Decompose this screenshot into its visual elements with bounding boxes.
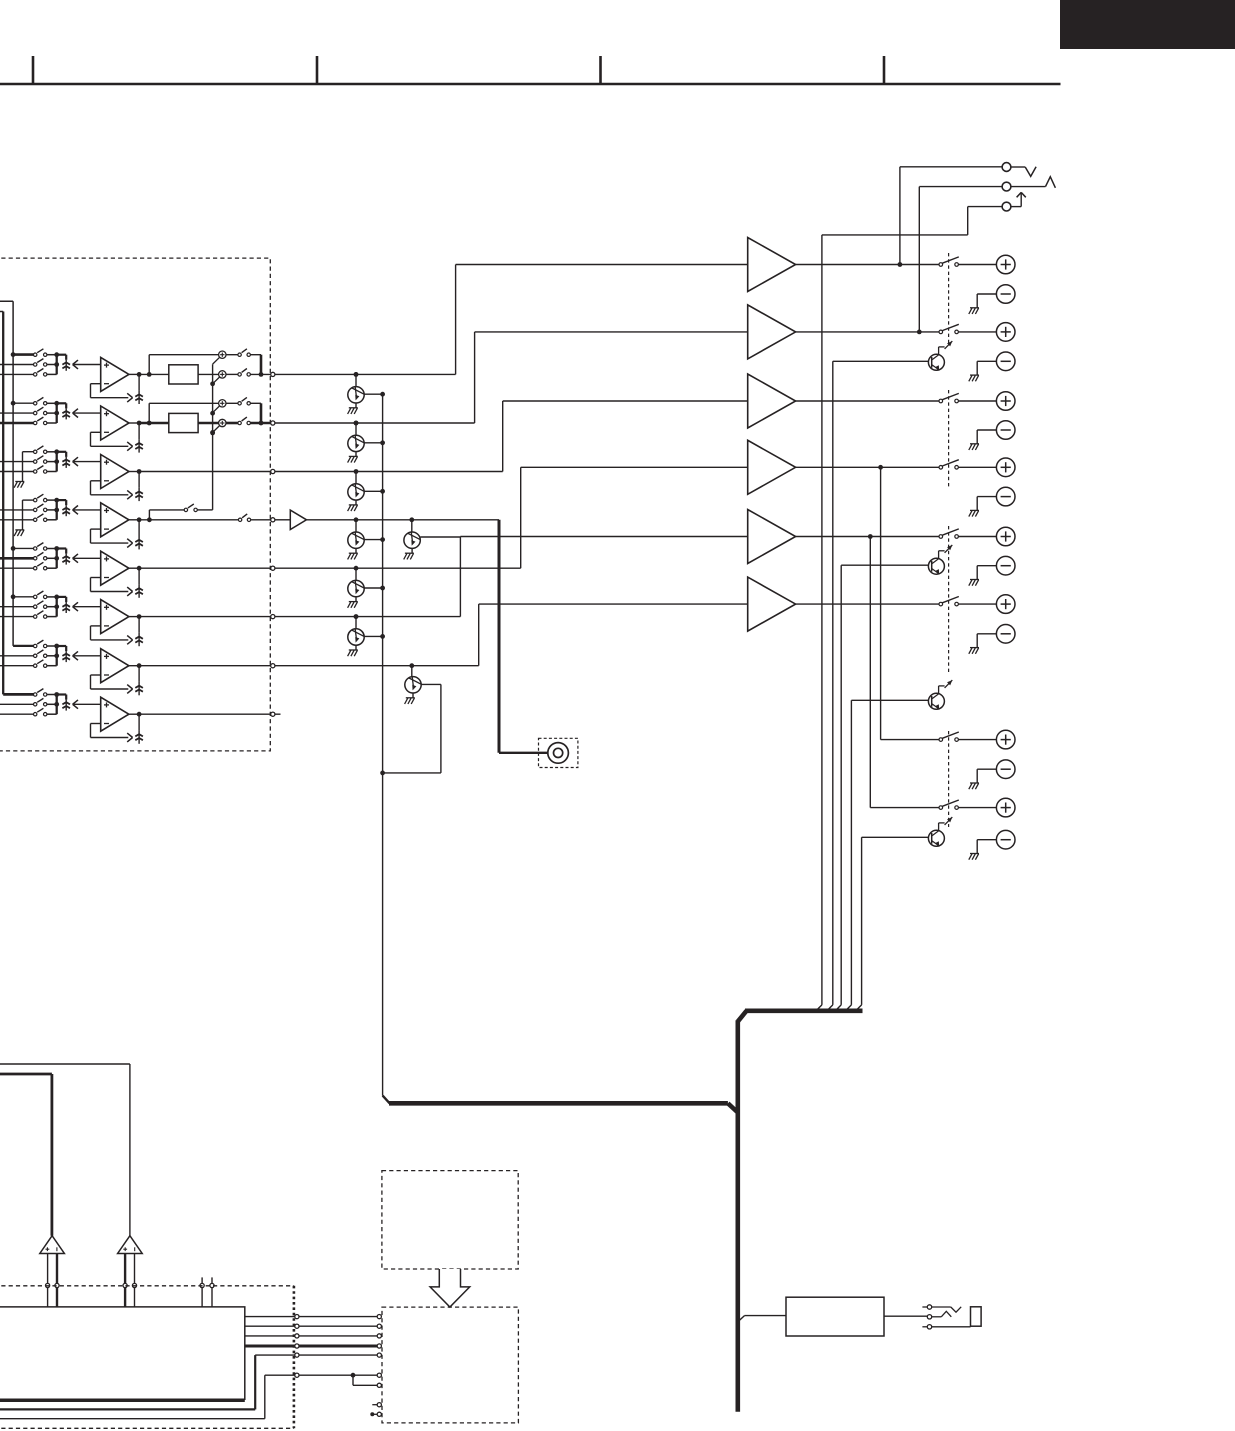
wire row 4 to buffer xyxy=(275,519,290,521)
wire row 8 stub xyxy=(139,713,280,715)
wire row 5 to power amp 4 xyxy=(275,467,748,570)
speaker terminal plus 7 xyxy=(996,730,1015,749)
mute transistor Q7 xyxy=(404,520,461,560)
branch wire row 4 to summing switch xyxy=(149,510,184,520)
volume pot VR1 xyxy=(57,355,101,371)
headphone jack contacts xyxy=(922,1305,931,1329)
corner fill block (top right) xyxy=(1060,0,1235,49)
terminal pin row 6 xyxy=(271,615,275,619)
sub assembly dashed box xyxy=(382,1307,518,1423)
summing node S1b xyxy=(210,371,226,387)
wire output node row 2 xyxy=(139,421,169,426)
summing node S2a xyxy=(213,400,226,413)
speaker terminal plus 3 xyxy=(996,392,1015,411)
power amp A4 xyxy=(748,440,796,494)
relay driver transistor Q11 xyxy=(833,341,953,371)
volume pot VR4 xyxy=(57,500,101,516)
mute transistor Q1 xyxy=(348,372,385,414)
feedback pot row 6 xyxy=(91,614,143,646)
speaker terminal minus 6 xyxy=(969,625,1015,654)
switch common node row 2 xyxy=(47,401,59,423)
op-amp U6 xyxy=(101,600,129,634)
wire lower feed 2 xyxy=(0,1375,295,1419)
display block dashed box xyxy=(382,1171,518,1269)
control wire xyxy=(299,1345,377,1348)
wire switch to summing bus xyxy=(197,509,212,511)
relay drive wire 4 xyxy=(856,837,862,1011)
relay contact K5 xyxy=(939,529,959,538)
sub block input pins xyxy=(377,1315,381,1417)
wire relay to terminal 7 xyxy=(958,739,996,741)
relay contact K1 xyxy=(939,257,959,266)
control wire split xyxy=(299,1373,377,1386)
op-amp output wire row 4 xyxy=(129,519,139,521)
input selector switches row 6 xyxy=(34,591,47,618)
IC output wires xyxy=(245,1317,295,1346)
sub block stub pins xyxy=(370,1405,377,1417)
junction row 1 mute xyxy=(354,372,359,377)
wire block to summing row 1 xyxy=(198,373,219,375)
control wire xyxy=(299,1325,377,1327)
relay contact K7 xyxy=(939,732,959,741)
controller IC block xyxy=(0,1307,245,1401)
volume pot VR2 xyxy=(57,403,101,419)
header tick 1 xyxy=(32,56,35,84)
left edge input wires xyxy=(0,365,34,715)
terminal pin row 2 xyxy=(271,421,275,425)
switch after S1a xyxy=(226,349,250,357)
control wire xyxy=(299,1335,377,1337)
op-amp output wire row 5 xyxy=(129,567,139,569)
speaker terminal plus 4 xyxy=(996,458,1015,477)
control stub pins xyxy=(200,1277,214,1307)
speaker terminal plus 8 xyxy=(996,798,1015,817)
speaker terminal minus 3 xyxy=(969,421,1015,450)
switch common node row 4 xyxy=(47,498,59,520)
switch common node row 1 xyxy=(47,352,59,374)
power amp A5 xyxy=(748,510,796,564)
switch common node row 8 xyxy=(47,692,59,714)
volume pot VR7 xyxy=(57,646,101,662)
relay contact K6 xyxy=(939,597,959,606)
wire relay to terminal 8 xyxy=(958,807,996,809)
switch common node row 3 xyxy=(47,449,59,471)
buffer amp row 4 xyxy=(290,510,306,529)
op-amp U7 xyxy=(101,649,129,683)
wire buffer to preout xyxy=(307,517,500,522)
op-amp output wire row 8 xyxy=(129,713,139,715)
summing select switch row 4 xyxy=(184,504,197,512)
op-amp output wire row 6 xyxy=(129,616,139,618)
speaker switch connector 3 xyxy=(1002,192,1026,211)
preout jack J1 xyxy=(539,738,578,767)
wire S2a to output xyxy=(250,403,261,423)
wire amp out 1 xyxy=(796,264,939,266)
speaker terminal minus 8 xyxy=(969,830,1015,859)
relay drive wire 3 xyxy=(846,700,852,1011)
relay driver transistor Q13 xyxy=(851,680,952,710)
relay drive wire 2 xyxy=(835,565,841,1011)
wire lower feed 1 (thick) xyxy=(0,1355,295,1409)
wire relay to terminal 2 xyxy=(958,331,996,333)
wire amp out 2 xyxy=(796,331,939,333)
wire amp out 4 xyxy=(796,466,939,468)
preout feed wire (thick) xyxy=(499,520,548,753)
output switch row 4 xyxy=(238,514,250,522)
switch after S2b xyxy=(226,417,250,425)
wire block to summing row 2 xyxy=(198,422,219,425)
volume pot VR6 xyxy=(57,597,101,613)
mute drive bus wire xyxy=(382,395,384,1096)
junction row 2 mute xyxy=(354,421,359,426)
speaker switch connector 2 xyxy=(1002,177,1055,191)
headphone resistor block xyxy=(786,1297,884,1336)
relay link (dashed) xyxy=(948,390,950,487)
wire row 3 to power amp 3 xyxy=(275,401,748,472)
terminal pin row 7 xyxy=(271,664,275,668)
relay link (dashed) xyxy=(948,731,950,827)
speaker terminal plus 2 xyxy=(996,323,1015,342)
wire row 4 output xyxy=(139,517,238,522)
cable bundle (thick bus) xyxy=(383,1011,863,1412)
wire relay to terminal 1 xyxy=(958,264,996,266)
wire row 4 to terminal xyxy=(251,519,271,521)
wire row 3 to terminal xyxy=(139,471,271,473)
feedback pot row 5 xyxy=(91,566,143,598)
bottom block dotted border right xyxy=(293,1286,296,1429)
feedback pot row 1 xyxy=(91,372,143,404)
mute transistor Q3 xyxy=(348,469,385,511)
terminal pin row 1 xyxy=(271,372,275,376)
input selector switches row 5 xyxy=(34,543,47,570)
bottom border terminals xyxy=(295,1315,299,1378)
feedback pot row 2 xyxy=(91,421,143,453)
wire to terminal row 2 xyxy=(250,421,270,426)
relay link (dashed) xyxy=(948,526,950,674)
header tick 3 xyxy=(599,56,602,84)
op-amp U1 xyxy=(101,357,129,391)
wire amp out 3 xyxy=(796,400,939,402)
header tick 4 xyxy=(883,56,886,84)
bus wire A (left input, thick) xyxy=(0,312,34,695)
op-amp U4 xyxy=(101,503,129,537)
terminal pin row 5 xyxy=(271,566,275,570)
block link arrow xyxy=(430,1269,470,1307)
wire amp4 to speaker B1 xyxy=(880,467,882,739)
terminal pin row 3 xyxy=(271,469,275,473)
op-amp output wire row 1 xyxy=(129,373,139,375)
wire input to detector 2 xyxy=(0,1064,130,1236)
wire relay to terminal 6 xyxy=(958,603,996,605)
op-amp output wire row 2 xyxy=(129,422,139,424)
junction amp5 out xyxy=(868,534,873,539)
junction amp1 out xyxy=(898,262,903,267)
op-amp output wire row 7 xyxy=(129,665,139,667)
op-amp output wire row 3 xyxy=(129,471,139,473)
wire resistor to jack xyxy=(884,1315,927,1317)
terminal pin row 4 xyxy=(271,518,275,522)
headphone jack ring contact xyxy=(932,1311,952,1317)
feedback pot row 3 xyxy=(91,469,143,501)
wire row 7 to power amp 6 xyxy=(275,604,748,666)
bus wire B (left input) with taps xyxy=(0,301,34,646)
relay driver transistor Q14 xyxy=(862,817,953,847)
relay contact K2 xyxy=(939,324,959,333)
mute transistor Q8 xyxy=(380,663,441,775)
wire relay to terminal 5 xyxy=(958,536,996,538)
wire output node row 1 xyxy=(139,372,169,377)
speaker terminal plus 1 xyxy=(996,255,1015,274)
speaker terminal minus 7 xyxy=(969,760,1015,789)
wire amp out 5 xyxy=(796,536,939,538)
summing node S2b xyxy=(210,419,226,435)
wire connector 1 to amp1 out xyxy=(900,167,1002,265)
feedback pot row 4 xyxy=(91,517,143,549)
volume pot VR5 xyxy=(57,549,101,565)
relay contact K3 xyxy=(939,393,959,402)
wire connector 2 to amp2 out xyxy=(919,187,1002,332)
character block row 1 xyxy=(169,365,198,384)
power amp A2 xyxy=(748,305,796,359)
speaker terminal minus 1 xyxy=(969,285,1015,314)
input selector switches row 4 xyxy=(34,494,47,521)
mute transistor Q5 xyxy=(348,568,385,608)
wire row 7 to terminal xyxy=(139,665,271,667)
wire to terminal row 1 xyxy=(250,372,270,377)
switch after S1b xyxy=(226,369,250,377)
branch wire to summing row 2 xyxy=(149,403,218,423)
summing node S1a xyxy=(213,351,226,364)
input selector switches row 8 xyxy=(34,689,47,716)
speaker terminal plus 6 xyxy=(996,595,1015,614)
character block row 2 xyxy=(169,413,198,432)
header tick 2 xyxy=(316,56,319,84)
input selector switches row 1 xyxy=(34,349,47,376)
relay contact K4 xyxy=(939,460,959,469)
speaker terminal plus 5 xyxy=(996,527,1015,546)
junction amp4 out xyxy=(878,465,883,470)
wire input to detector 1 (thick) xyxy=(0,1074,52,1236)
terminal pin row 8 xyxy=(271,712,275,716)
wire relay to terminal 4 xyxy=(958,466,996,468)
relay link (dashed) xyxy=(948,253,950,345)
switch common node row 6 xyxy=(47,595,59,617)
volume block dashed border xyxy=(0,258,270,751)
wire relay to terminal 3 xyxy=(958,400,996,402)
wire row 6 to power amp 5 xyxy=(275,537,748,619)
mute transistor Q6 xyxy=(348,614,385,656)
wire amp out 8 xyxy=(870,807,939,809)
control wire xyxy=(299,1316,377,1318)
wire S1a to output xyxy=(250,355,261,375)
control wire xyxy=(299,1354,377,1356)
wire bus to headphone resistor xyxy=(738,1316,786,1322)
junction amp2 out xyxy=(917,330,922,335)
relay driver transistor Q12 xyxy=(841,545,952,575)
power amp A1 xyxy=(748,238,796,292)
headphone jack tip contact xyxy=(932,1307,962,1312)
wire amp out 6 xyxy=(796,603,939,605)
speaker terminal minus 2 xyxy=(969,352,1015,381)
power amp A6 xyxy=(748,577,796,631)
speaker switch connector 1 xyxy=(1002,163,1036,177)
ground feed group 4 xyxy=(14,500,33,536)
wire row 1 to power amp 1 xyxy=(275,265,748,375)
feedback pot row 7 xyxy=(91,663,143,695)
op-amp U5 xyxy=(101,551,129,585)
wire row 6 to terminal xyxy=(139,616,271,618)
speaker terminal minus 5 xyxy=(969,556,1015,585)
wire connector 3 to control bus xyxy=(816,207,1002,1011)
relay drive wire 1 xyxy=(827,361,833,1011)
branch wire to summing row 1 xyxy=(149,355,218,375)
input selector switches row 2 xyxy=(34,397,47,424)
speaker terminal minus 4 xyxy=(969,487,1015,516)
volume pot VR3 xyxy=(57,452,101,468)
volume pot VR8 xyxy=(57,695,101,711)
op-amp U8 xyxy=(101,697,129,731)
power amp A3 xyxy=(748,374,796,428)
wire amp out 7 xyxy=(881,739,939,741)
page header rule xyxy=(0,83,1061,86)
summing bus wire xyxy=(210,364,215,510)
wire amp5 to speaker B2 xyxy=(869,537,871,808)
op-amp U3 xyxy=(101,455,129,489)
detector amp D1 xyxy=(40,1236,65,1254)
bottom block dashed border bottom xyxy=(0,1427,294,1429)
detector amp D2 xyxy=(118,1236,143,1254)
input selector switches row 3 xyxy=(34,446,47,473)
relay contact K8 xyxy=(939,800,959,809)
switch after S2a xyxy=(226,397,250,405)
feedback pot row 8 xyxy=(91,712,143,744)
headphone jack sleeve xyxy=(932,1307,981,1327)
detector pins to IC xyxy=(46,1254,137,1307)
mute transistor Q4 xyxy=(348,520,385,560)
mute transistor Q2 xyxy=(348,421,385,463)
op-amp U2 xyxy=(101,406,129,440)
ground feed group 3 xyxy=(14,452,33,488)
input selector switches row 7 xyxy=(34,640,47,667)
bottom block dashed border top xyxy=(0,1285,294,1287)
switch common node row 5 xyxy=(47,546,59,568)
wire row 2 to power amp 2 xyxy=(275,332,748,423)
wire row 5 to terminal xyxy=(139,567,271,569)
switch common node row 7 xyxy=(47,644,59,666)
